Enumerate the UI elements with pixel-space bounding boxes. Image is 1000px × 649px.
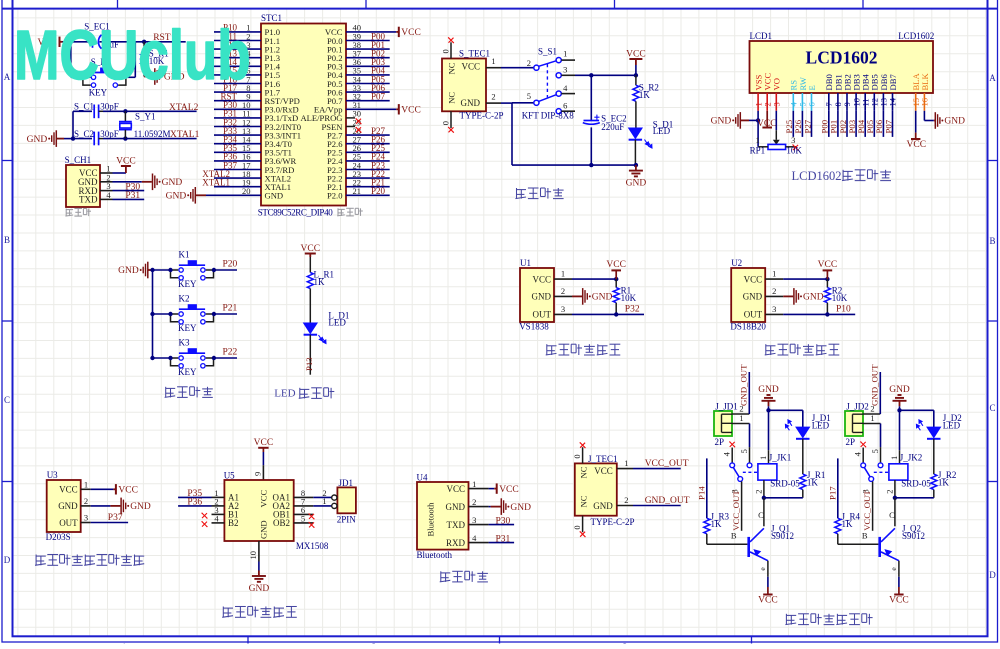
- label RP1: [750, 146, 766, 156]
- svg-text:Bluetooth: Bluetooth: [426, 502, 436, 537]
- svg-text:GND_OUT: GND_OUT: [645, 496, 690, 506]
- svg-text:11.0592M: 11.0592M: [134, 129, 171, 139]
- svg-text:XTAL1: XTAL1: [170, 130, 200, 140]
- value 10K: [832, 293, 848, 303]
- label U2: [731, 258, 742, 268]
- svg-text:B: B: [862, 531, 868, 541]
- svg-text:LCD1: LCD1: [750, 31, 773, 41]
- lcd LCD1 body: [750, 31, 934, 93]
- label VS1838: [519, 322, 549, 332]
- label J_D1: [812, 413, 831, 423]
- power flag VCC (lcd pin2): [757, 111, 777, 129]
- capacitor S_EC2: [583, 75, 600, 167]
- net label RST (mcu pin 9): [214, 92, 261, 102]
- capacitor S_C2: [94, 132, 103, 146]
- svg-text:1: 1: [472, 479, 476, 489]
- svg-text:1K: 1K: [314, 277, 326, 287]
- net label XTAL1 (mcu pin 19): [202, 178, 261, 188]
- value 1K (J_R3): [711, 519, 723, 529]
- net label XTAL1 (crystal): [170, 130, 200, 140]
- wire VSS to gnd: [756, 111, 760, 147]
- svg-text:VCC: VCC: [446, 484, 465, 494]
- net label P15 (mcu pin 6): [214, 66, 261, 76]
- resistor R2: [824, 279, 830, 314]
- svg-text:S9012: S9012: [902, 531, 925, 541]
- svg-text:9: 9: [253, 472, 263, 476]
- svg-text:STC1: STC1: [261, 13, 282, 23]
- svg-text:Bluetooth: Bluetooth: [417, 550, 453, 560]
- wire vcc (U2): [783, 277, 829, 281]
- net label P26 (lcd): [793, 111, 803, 137]
- label J_R4: [842, 512, 861, 522]
- svg-text:4: 4: [472, 533, 477, 543]
- label S9012 (J_Q2): [902, 531, 925, 541]
- net label P02 (lcd): [838, 111, 848, 137]
- power flag VCC (U5): [254, 438, 274, 452]
- svg-text:VCC: VCC: [818, 260, 838, 270]
- net label P03 (lcd): [847, 111, 857, 137]
- net label P02 (mcu pin 37): [346, 49, 390, 59]
- resistor L_R1: [307, 273, 313, 323]
- label Bluetooth: [417, 550, 453, 560]
- net label RST: [153, 33, 171, 43]
- key K1: [168, 260, 213, 280]
- svg-text:GND: GND: [162, 178, 183, 188]
- led J_D2 arrows: [916, 420, 923, 431]
- svg-text:NC: NC: [447, 92, 457, 104]
- key K3: [168, 348, 213, 368]
- label S_CH1: [65, 155, 92, 165]
- label JD1: [339, 478, 354, 488]
- svg-text:P37: P37: [108, 513, 123, 523]
- net label P03 (mcu pin 36): [346, 57, 390, 67]
- svg-text:GND: GND: [532, 292, 552, 302]
- svg-text:D203S: D203S: [46, 532, 71, 542]
- ground GND (U3): [91, 498, 151, 515]
- svg-text:1: 1: [755, 135, 759, 145]
- svg-text:NC: NC: [447, 62, 457, 74]
- no-connect U5 B1: [201, 513, 207, 519]
- svg-text:LCD1602: LCD1602: [792, 169, 842, 183]
- svg-text:VCC: VCC: [499, 485, 519, 495]
- net label P31 (S_CH1): [125, 191, 140, 201]
- pin 1 S_TEC1: [486, 56, 501, 68]
- label J_JK2: [900, 453, 923, 463]
- svg-text:VCC: VCC: [401, 28, 421, 38]
- svg-text:GND: GND: [711, 117, 732, 127]
- svg-text:OUT: OUT: [744, 310, 763, 320]
- net label P32 (U1): [572, 305, 644, 317]
- ground GND (U1): [572, 288, 613, 305]
- caption LCD display module: [792, 169, 892, 183]
- svg-text:K3: K3: [179, 338, 190, 348]
- svg-text:1: 1: [561, 269, 565, 279]
- label K3: [179, 338, 190, 348]
- net label P36 (U5): [178, 497, 211, 507]
- label LCD1602 (top right): [898, 31, 934, 41]
- power flag VCC (U2): [818, 260, 838, 279]
- svg-text:GND: GND: [259, 520, 269, 539]
- svg-text:P30: P30: [496, 516, 511, 526]
- label KEY (K1): [178, 279, 197, 289]
- label L_R1: [314, 270, 335, 280]
- svg-text:4: 4: [563, 83, 568, 93]
- value 1K (L_R1): [314, 277, 326, 287]
- net label P30 (mcu pin 10): [214, 100, 261, 110]
- ground GND (reset): [144, 68, 185, 85]
- wire switch pin3 to vcc node: [575, 73, 638, 77]
- svg-text:1K: 1K: [711, 519, 723, 529]
- svg-text:GND: GND: [166, 192, 187, 202]
- svg-text:U1: U1: [520, 258, 531, 268]
- net label P34 (mcu pin 14): [214, 135, 261, 145]
- no-connect pin 0 top (J_TEC1): [572, 442, 586, 463]
- svg-text:XTAL2: XTAL2: [169, 103, 199, 113]
- svg-text:1: 1: [739, 413, 743, 423]
- label S_S1: [538, 46, 557, 56]
- net label P25 (lcd): [784, 111, 794, 137]
- svg-text:J_JD1: J_JD1: [715, 401, 738, 411]
- svg-text:3: 3: [472, 515, 476, 525]
- net label P14: [696, 458, 707, 518]
- net label P00 (mcu pin 39): [346, 31, 390, 41]
- wire VO to pot wiper: [775, 111, 777, 140]
- net label P13 (led): [304, 357, 314, 371]
- svg-text:VCC: VCC: [758, 595, 778, 605]
- wire gnd node (J_JK2): [897, 408, 934, 450]
- wire C1 to XTAL2 node: [103, 109, 197, 113]
- label U1: [520, 258, 531, 268]
- no-connect pin 30: [346, 118, 362, 124]
- wire cap to RST node: [100, 40, 147, 44]
- svg-text:2: 2: [84, 496, 88, 506]
- svg-text:S_C2: S_C2: [74, 129, 94, 139]
- caption danpianji: [337, 208, 363, 216]
- label U3: [47, 470, 58, 480]
- ground GND (J_JK2): [889, 385, 910, 411]
- connector J_JD1: [714, 411, 732, 436]
- net label P10 (U2): [783, 305, 855, 317]
- label J_R3: [711, 512, 730, 522]
- no-connect pin 0 bottom (S_TEC1): [441, 111, 455, 133]
- svg-text:GND: GND: [743, 292, 763, 302]
- svg-text:1: 1: [758, 456, 768, 460]
- label KEY (K3): [178, 367, 197, 377]
- caption temperature module: [765, 344, 840, 355]
- value 10uF: [101, 40, 120, 50]
- ground GND (mcu pin 20): [166, 187, 261, 204]
- svg-text:TXD: TXD: [79, 195, 98, 205]
- net label P00 (lcd): [820, 111, 830, 137]
- svg-text:D: D: [4, 555, 11, 565]
- mcu pin names: [265, 27, 344, 200]
- net label P30 (U4): [489, 516, 514, 526]
- svg-text:U5: U5: [224, 470, 235, 480]
- svg-text:GND: GND: [58, 501, 78, 511]
- svg-text:LED: LED: [328, 317, 346, 327]
- svg-text:TXD: TXD: [447, 520, 466, 530]
- svg-text:S_CH1: S_CH1: [65, 155, 92, 165]
- wire vcc to U5 pin9: [262, 452, 264, 465]
- net label P07 (lcd): [883, 111, 893, 137]
- power flag VCC (lcd BLA): [907, 111, 927, 150]
- wire C2 to XTAL1 node: [103, 136, 197, 140]
- net label P23 (mcu pin 24): [346, 160, 390, 170]
- wire gnd to switch pin5: [512, 102, 534, 104]
- svg-text:2: 2: [527, 58, 531, 68]
- svg-text:DS18B20: DS18B20: [730, 322, 766, 332]
- svg-text:VCC: VCC: [118, 486, 138, 496]
- svg-text:GND: GND: [803, 293, 824, 303]
- net label P07 (mcu pin 32): [346, 92, 390, 102]
- led L_D1 arrows: [319, 335, 327, 344]
- pin 9 U5: [253, 465, 264, 480]
- power flag VCC (J_Q1): [758, 577, 778, 606]
- label S_EC1: [84, 22, 110, 32]
- svg-text:OUT: OUT: [533, 310, 552, 320]
- svg-text:1K: 1K: [842, 519, 854, 529]
- label LED (J_D2): [943, 420, 961, 430]
- label S_TEC1: [459, 49, 490, 59]
- svg-text:VCC: VCC: [116, 157, 136, 167]
- svg-text:TYPE-C-2P: TYPE-C-2P: [591, 517, 635, 527]
- svg-text:2PIN: 2PIN: [337, 514, 357, 524]
- ground GND (U4): [489, 498, 532, 515]
- svg-text:VCC: VCC: [626, 50, 646, 60]
- svg-text:S_TEC1: S_TEC1: [459, 49, 490, 59]
- svg-text:A: A: [989, 73, 996, 83]
- label J_R1: [807, 470, 826, 480]
- svg-text:S_S1: S_S1: [538, 46, 557, 56]
- pin1 wire J_JD2: [863, 413, 881, 447]
- svg-text:GND: GND: [944, 117, 965, 127]
- net label GND_OUT: [617, 495, 690, 506]
- label J_D2: [943, 413, 962, 423]
- svg-text:P10: P10: [836, 305, 851, 315]
- value 1K (J_R4): [842, 519, 854, 529]
- net label P05 (mcu pin 34): [346, 74, 390, 84]
- label LED (J_D1): [812, 420, 830, 430]
- value 11.0592M: [134, 129, 171, 139]
- svg-text:0: 0: [572, 525, 582, 529]
- value 1K (S_R2): [639, 90, 651, 100]
- svg-text:MX1508: MX1508: [296, 541, 329, 551]
- relay J_JK1: [722, 441, 777, 498]
- svg-text:1: 1: [870, 413, 874, 423]
- label J_Q1: [771, 524, 790, 534]
- mcu right pin numbers: [353, 23, 362, 196]
- no-connect U5 OB2: [308, 522, 314, 528]
- led J_D1: [796, 427, 810, 474]
- net label XTAL2 (crystal): [169, 103, 199, 113]
- led J_D1 arrows: [785, 420, 792, 431]
- svg-text:1K: 1K: [639, 90, 651, 100]
- label J_TEC1: [588, 454, 618, 464]
- svg-text:1: 1: [491, 56, 495, 66]
- svg-text:LCD1602: LCD1602: [898, 31, 934, 41]
- svg-text:GND: GND: [249, 584, 270, 594]
- net label P06 (mcu pin 33): [346, 83, 390, 93]
- net label P01 (mcu pin 38): [346, 40, 390, 50]
- power flag VCC (U3): [91, 484, 138, 495]
- net label P04 (mcu pin 35): [346, 66, 390, 76]
- svg-text:VCC: VCC: [532, 274, 551, 284]
- net label P04 (lcd): [856, 111, 866, 137]
- net label P20 (mcu pin 21): [346, 186, 390, 196]
- resistor R1: [613, 279, 619, 314]
- wire gnd node (J_JK1): [766, 408, 803, 450]
- svg-text:1: 1: [563, 48, 567, 58]
- lcd pin numbers: [753, 97, 929, 106]
- svg-text:10K: 10K: [621, 293, 637, 303]
- sensor U3 body: [47, 480, 91, 533]
- value 30pF (S_C1): [100, 102, 119, 112]
- svg-text:VCC: VCC: [907, 140, 927, 150]
- caption key circuit: [165, 387, 213, 398]
- svg-text:C: C: [758, 510, 764, 520]
- switch S_S1: [534, 58, 562, 114]
- label KEY (K2): [178, 323, 197, 333]
- transistor J_Q2: [838, 498, 899, 577]
- svg-text:P07: P07: [883, 119, 893, 133]
- label S_Y1: [135, 112, 156, 122]
- ground GND (S_CH1): [113, 174, 183, 191]
- ground GND (lcd BLK): [924, 111, 965, 129]
- svg-text:RXD: RXD: [446, 538, 466, 548]
- label S_C1: [74, 102, 94, 112]
- net label P17: [827, 458, 838, 518]
- svg-text:NC: NC: [579, 466, 589, 478]
- svg-text:E: E: [807, 85, 817, 90]
- value 30pF (S_C2): [100, 129, 119, 139]
- sensor U2 body: [731, 268, 783, 322]
- svg-text:P17: P17: [827, 486, 837, 500]
- switch pin stubs: [561, 60, 575, 111]
- power flag VCC (led circuit): [301, 244, 321, 273]
- svg-text:KEY: KEY: [178, 367, 197, 377]
- power flag VCC (power circuit): [626, 50, 646, 76]
- svg-text:LCD1602: LCD1602: [806, 48, 878, 68]
- label S_R2: [639, 83, 659, 93]
- svg-text:10: 10: [248, 551, 258, 560]
- key S_K1: [83, 68, 126, 88]
- connector S_CH1: [66, 164, 113, 208]
- svg-text:GND_OUT: GND_OUT: [870, 364, 880, 406]
- svg-text:C: C: [889, 510, 895, 520]
- net label P22: [212, 348, 238, 361]
- power flag VCC (J_Q2): [889, 577, 909, 606]
- svg-text:C: C: [4, 395, 10, 405]
- label U5: [224, 470, 235, 480]
- svg-text:B: B: [731, 531, 737, 541]
- label KEY (S_K1): [89, 87, 108, 97]
- resistor J_R3: [704, 518, 710, 544]
- svg-text:U4: U4: [417, 473, 428, 483]
- label 2P (J_JD2): [846, 437, 856, 447]
- svg-text:GND: GND: [265, 191, 284, 201]
- svg-text:2P: 2P: [715, 437, 725, 447]
- svg-text:2: 2: [624, 495, 628, 505]
- motor driver U5 body: [212, 480, 314, 541]
- svg-text:VCC: VCC: [301, 244, 321, 254]
- net label P14 (mcu pin 5): [214, 57, 261, 67]
- label J_JK1: [769, 453, 792, 463]
- svg-text:P21: P21: [223, 304, 238, 314]
- svg-text:5: 5: [527, 91, 531, 101]
- resistor S_R1: [141, 42, 147, 77]
- svg-text:VCC: VCC: [606, 260, 626, 270]
- wire relay to collector (J_JK1): [762, 496, 803, 500]
- power flag VCC (U1): [606, 260, 626, 279]
- label SRD-05 (J_JK1): [770, 478, 800, 488]
- svg-text:GND: GND: [593, 501, 613, 511]
- resistor J_R1: [800, 474, 806, 498]
- svg-text:0: 0: [441, 49, 451, 53]
- capacitor S_EC1: [87, 35, 102, 49]
- ground GND (keys): [118, 262, 152, 279]
- ground GND (power circuit): [626, 165, 647, 189]
- power flag VCC (U4): [489, 483, 519, 494]
- svg-text:VCC: VCC: [594, 466, 613, 476]
- ground GND (U2): [783, 288, 824, 305]
- svg-text:VCC: VCC: [889, 595, 909, 605]
- svg-text:BLK: BLK: [920, 73, 930, 91]
- svg-text:1K: 1K: [807, 477, 819, 487]
- label U4: [417, 473, 428, 483]
- svg-text:1: 1: [624, 458, 628, 468]
- svg-text:VCC: VCC: [254, 438, 274, 448]
- resistor S_R2: [633, 75, 639, 128]
- wire OA2 to JD1: [313, 505, 331, 507]
- svg-text:DB7: DB7: [888, 74, 898, 91]
- value 10K: [621, 293, 637, 303]
- capacitor S_C1: [94, 105, 103, 119]
- label K1: [179, 250, 190, 260]
- lcd pin stubs colored: [758, 93, 924, 111]
- svg-text:2: 2: [754, 490, 764, 494]
- svg-text:RP1: RP1: [750, 146, 766, 156]
- net label P10 (mcu pin 1): [214, 23, 261, 33]
- led S_D1: [629, 128, 643, 167]
- resistor J_R2: [931, 474, 937, 498]
- svg-text:5: 5: [739, 449, 749, 453]
- led S_D1 arrows: [645, 140, 653, 149]
- svg-text:6: 6: [563, 101, 567, 111]
- svg-text:P13: P13: [304, 357, 314, 371]
- net label P32 (mcu pin 12): [214, 117, 261, 127]
- svg-text:1: 1: [84, 480, 88, 490]
- led J_D2: [927, 427, 941, 474]
- net label VCC_OUT (J_JK2): [860, 481, 872, 530]
- net label XTAL2 (mcu pin 18): [202, 169, 261, 179]
- pin 10 U5: [248, 541, 259, 562]
- net label P33 (mcu pin 13): [214, 126, 261, 136]
- value 10K (RP1): [786, 146, 802, 156]
- net label P24 (mcu pin 25): [346, 152, 390, 162]
- svg-text:VCC: VCC: [757, 119, 777, 129]
- svg-text:P22: P22: [223, 348, 238, 358]
- sensor U1 body: [520, 268, 572, 322]
- net label P05 (lcd): [865, 111, 875, 137]
- net label P21: [212, 304, 238, 317]
- net label P16 (mcu pin 7): [214, 74, 261, 84]
- svg-text:VCC: VCC: [259, 490, 269, 508]
- svg-text:S9012: S9012: [771, 531, 794, 541]
- lcd pin names: [754, 73, 930, 91]
- watermark MCUclub: [14, 17, 251, 95]
- potentiometer RP1: [755, 135, 796, 149]
- caption bluetooth module: [440, 571, 488, 582]
